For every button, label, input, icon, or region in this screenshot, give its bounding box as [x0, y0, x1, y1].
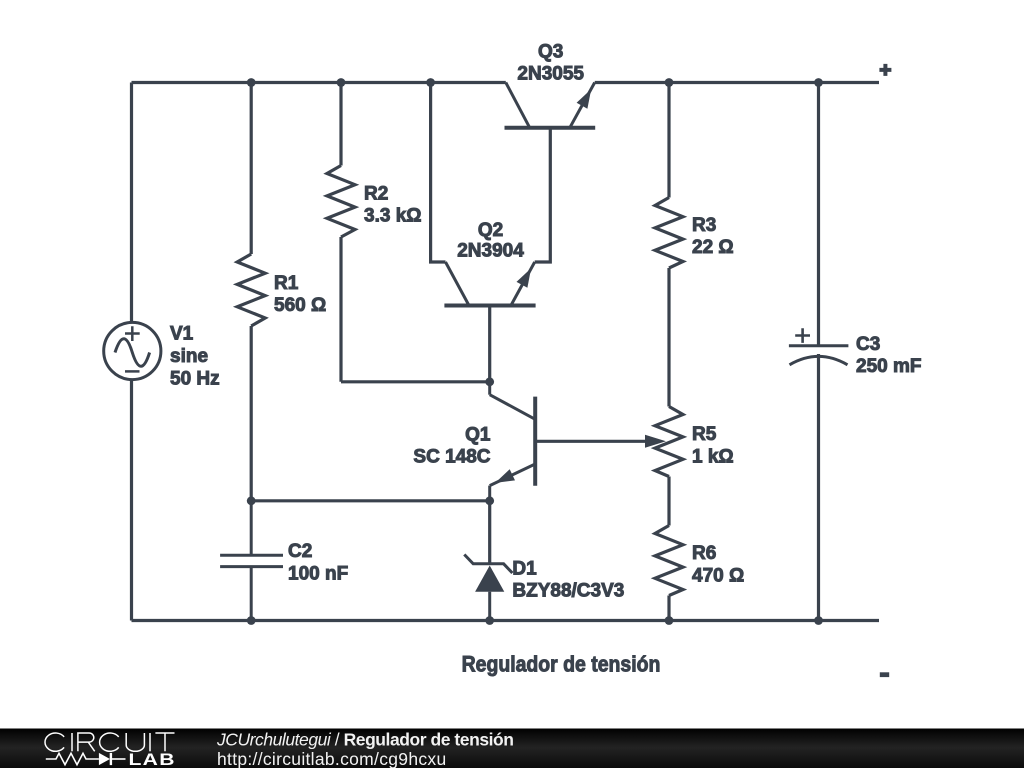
svg-text:R6: R6 [692, 543, 716, 564]
wire C3 top lead [817, 83, 820, 346]
svg-text:http://circuitlab.com/cg9hcxu: http://circuitlab.com/cg9hcxu [217, 749, 447, 768]
wire D1 top lead [488, 501, 491, 565]
capacitor C3 polarized [789, 328, 849, 365]
wire left rail upper [130, 83, 133, 322]
wire left rail lower [130, 381, 133, 621]
svg-text:D1: D1 [512, 558, 537, 579]
svg-text:50 Hz: 50 Hz [170, 369, 220, 390]
wire C3 bottom lead [817, 354, 820, 621]
svg-text:470 Ω: 470 Ω [692, 565, 744, 586]
wire R2 bottom to Q1 collector [341, 380, 490, 383]
transistor Q1 SC148C [490, 382, 536, 501]
svg-text:Q3: Q3 [538, 41, 563, 62]
label R2 value [364, 183, 422, 226]
svg-text:BZY88/C3V3: BZY88/C3V3 [512, 581, 624, 602]
svg-text:Regulador de tensión: Regulador de tensión [462, 652, 661, 677]
wire Q1 base to R5 wiper [535, 440, 650, 443]
wire R2 top lead [339, 83, 342, 166]
svg-text:Q2: Q2 [478, 220, 503, 241]
svg-text:V1: V1 [170, 324, 194, 345]
svg-text:SC 148C: SC 148C [413, 447, 490, 468]
label D1 value [512, 558, 624, 601]
transistor Q3 2N3055 [505, 83, 596, 128]
label C2 value [288, 541, 348, 584]
node dot top rail R2 [337, 78, 346, 87]
svg-text:3.3 kΩ: 3.3 kΩ [364, 206, 422, 227]
svg-text:R5: R5 [692, 424, 717, 445]
svg-text:JCUrchulutegui / Regulador de: JCUrchulutegui / Regulador de tensión [216, 730, 514, 750]
voltage source V1 [104, 322, 161, 379]
svg-text:2N3904: 2N3904 [457, 241, 524, 262]
wire R1 bottom lead [250, 326, 253, 501]
resistor R3 [655, 198, 683, 269]
svg-text:560 Ω: 560 Ω [274, 295, 326, 316]
node dot C2 top junction [247, 496, 256, 505]
wire R5 to R6 [667, 477, 670, 526]
terminal plus [879, 64, 891, 76]
wiper arrow into R5 [645, 435, 666, 448]
wire R2 bottom lead [339, 237, 342, 382]
node dot top rail C3 [814, 78, 823, 87]
node dot Q1 collector junction [485, 377, 494, 386]
label Q3 value [517, 41, 584, 84]
resistor R2 [327, 166, 355, 238]
svg-text:R3: R3 [692, 215, 716, 236]
svg-text:C3: C3 [856, 334, 880, 355]
svg-text:250 mF: 250 mF [856, 356, 921, 377]
wire top rail left segment [132, 81, 506, 84]
wire top rail right segment [595, 81, 879, 84]
wire Q2 base lead [488, 306, 491, 382]
svg-text:Q1: Q1 [465, 424, 491, 445]
wire R3 to R5 [667, 268, 670, 407]
CircuitLab logo text CIRCUIT [45, 733, 174, 751]
resistor R1 [237, 254, 265, 326]
wire R6 bottom lead [667, 596, 670, 621]
label Q1 value [413, 424, 491, 467]
resistor R6 [655, 526, 683, 596]
node dot top rail R3 [665, 78, 674, 87]
label R5 value [692, 424, 734, 467]
node dot top rail Q2 collector [426, 78, 435, 87]
node dot Q1 emitter junction [485, 496, 494, 505]
node dot bottom rail R6 [665, 616, 674, 625]
diode D1 zener [464, 555, 512, 621]
footer bar [0, 729, 1024, 768]
svg-text:R2: R2 [364, 183, 388, 204]
terminal minus [880, 672, 889, 677]
svg-text:100 nF: 100 nF [288, 564, 348, 585]
transistor Q2 2N3904 [444, 262, 535, 306]
wire R1 top lead [250, 83, 253, 255]
label Q2 value [457, 220, 524, 262]
svg-text:C2: C2 [288, 541, 312, 562]
node dot top rail R1 [247, 78, 256, 87]
label R3 value [692, 215, 734, 258]
node dot bottom rail C3 [814, 616, 823, 625]
label C3 value [856, 334, 921, 377]
svg-text:22 Ω: 22 Ω [692, 237, 734, 258]
label R6 value [692, 543, 744, 586]
wire Q3 base to Q2 emitter [535, 128, 551, 262]
wire Q1 emitter to C2 [251, 499, 490, 502]
wire R3 top lead [667, 83, 670, 198]
label R1 value [274, 273, 326, 316]
node dot bottom rail C2 [247, 616, 256, 625]
wire Q2 collector lead [431, 83, 446, 263]
svg-text:sine: sine [170, 346, 208, 367]
potentiometer R5 [655, 407, 683, 477]
svg-text:R1: R1 [274, 273, 299, 294]
svg-text:LAB: LAB [129, 751, 176, 768]
svg-text:1 kΩ: 1 kΩ [692, 447, 734, 468]
capacitor C2 [220, 501, 283, 621]
wire bottom rail [132, 619, 880, 622]
svg-text:2N3055: 2N3055 [517, 64, 584, 85]
CircuitLab logo resistor-diode symbol [46, 753, 126, 765]
label V1 value [170, 324, 220, 390]
node dot bottom rail D1 [485, 616, 494, 625]
